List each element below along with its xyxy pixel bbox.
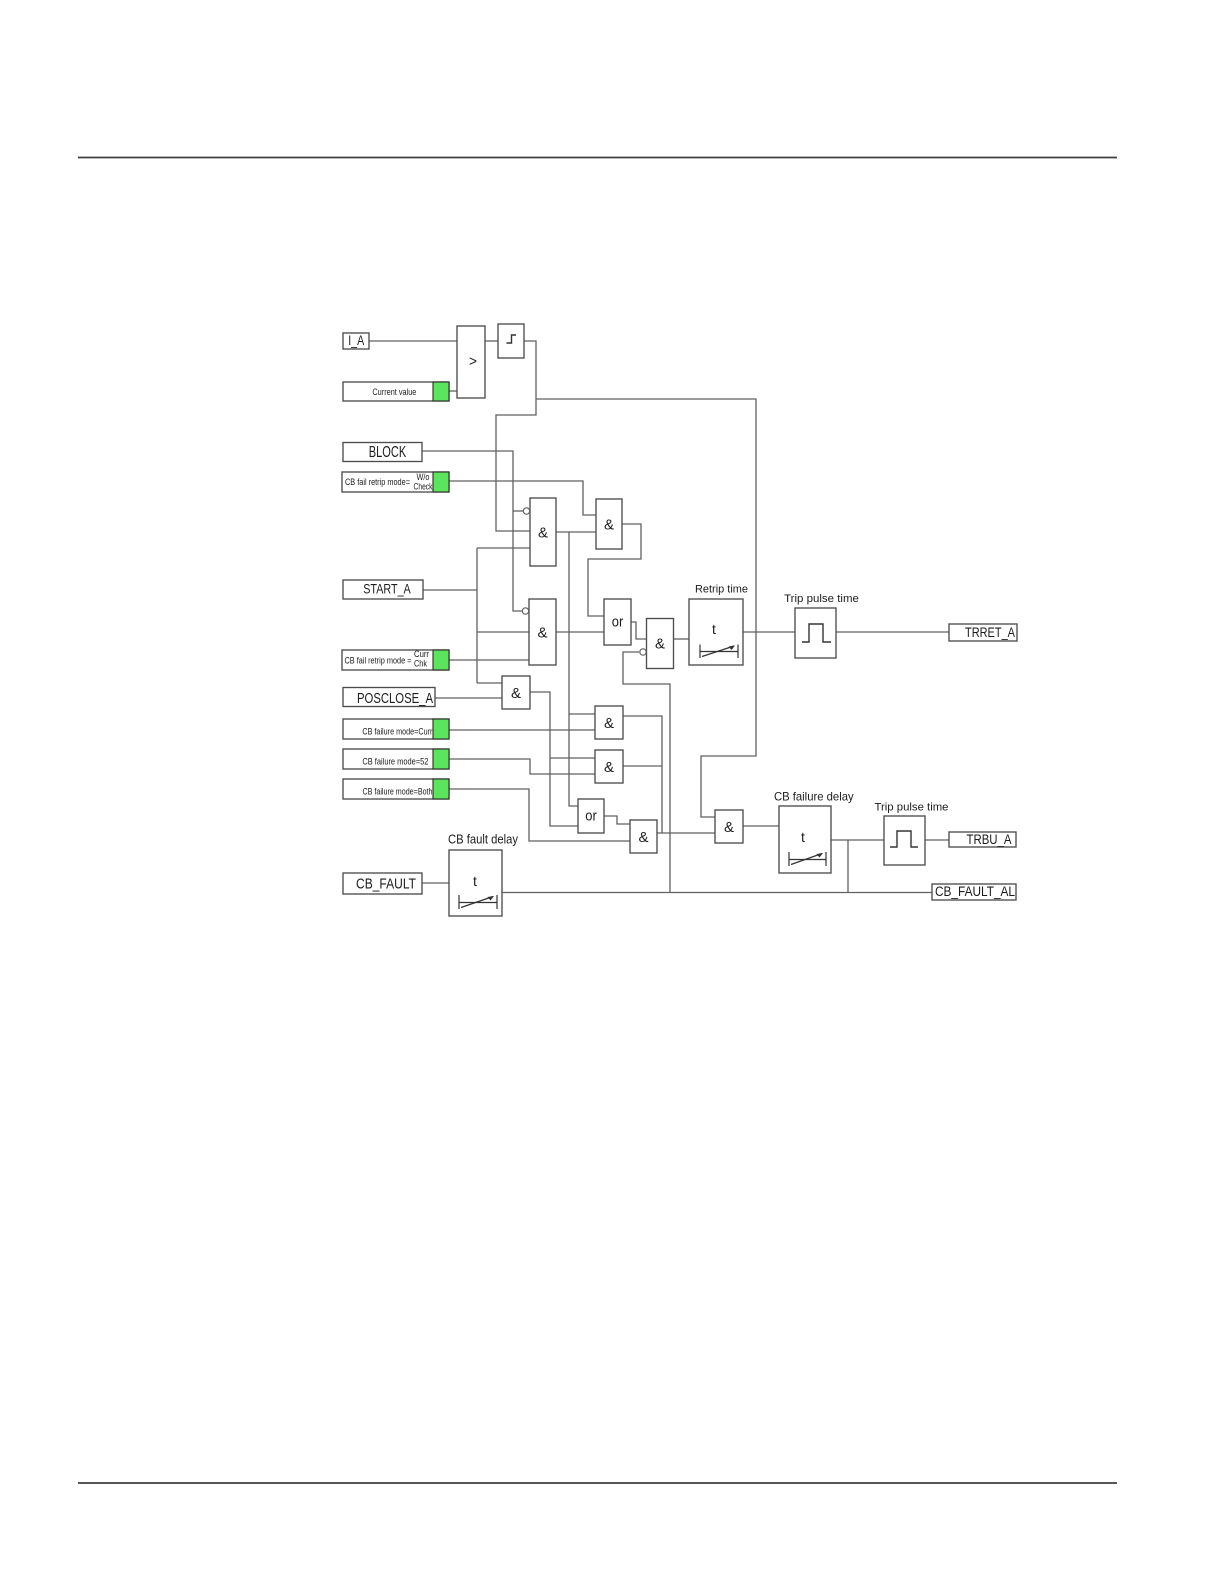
svg-text:CB failure mode=Both: CB failure mode=Both [363,787,433,798]
svg-text:CB_FAULT_AL: CB_FAULT_AL [935,884,1015,899]
svg-text:>: > [469,353,477,370]
svg-text:&: & [604,759,614,776]
svg-text:CB failure mode=Curr: CB failure mode=Curr [362,727,432,738]
svg-text:CB fault delay: CB fault delay [448,832,518,847]
svg-text:t: t [801,829,805,845]
svg-text:Current value: Current value [372,387,416,397]
svg-text:&: & [639,829,649,846]
svg-text:or: or [612,614,624,631]
svg-text:&: & [655,635,665,652]
svg-text:Trip pulse time: Trip pulse time [784,593,859,605]
svg-text:CB failure delay: CB failure delay [774,790,854,804]
svg-text:CB_FAULT: CB_FAULT [356,877,416,893]
svg-text:&: & [511,685,521,702]
svg-text:POSCLOSE_A: POSCLOSE_A [357,691,433,707]
svg-text:Retrip time: Retrip time [695,584,748,596]
svg-text:t: t [712,621,716,637]
svg-text:&: & [538,624,548,641]
svg-text:W/o: W/o [417,472,430,482]
svg-text:CB fail retrip mode=: CB fail retrip mode= [345,477,410,487]
svg-text:I_A: I_A [348,332,365,348]
svg-text:CB fail retrip mode =: CB fail retrip mode = [345,656,412,666]
svg-text:&: & [604,516,614,533]
svg-text:or: or [585,808,597,825]
svg-text:START_A: START_A [363,581,411,597]
svg-text:&: & [724,819,734,836]
svg-text:&: & [538,524,548,541]
svg-text:Curr: Curr [414,649,429,659]
svg-text:Trip pulse time: Trip pulse time [875,802,949,814]
svg-text:TRRET_A: TRRET_A [965,624,1016,640]
svg-text:&: & [604,715,614,732]
svg-text:BLOCK: BLOCK [369,444,407,461]
svg-text:Check: Check [414,482,433,492]
svg-text:TRBU_A: TRBU_A [967,831,1013,847]
svg-text:CB failure mode=52: CB failure mode=52 [362,757,428,768]
svg-text:Chk: Chk [414,659,427,669]
svg-text:t: t [473,873,477,889]
